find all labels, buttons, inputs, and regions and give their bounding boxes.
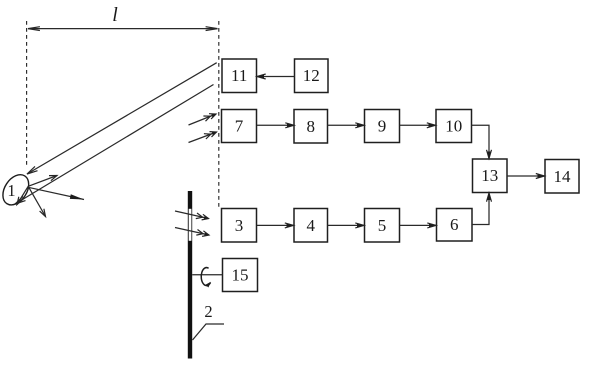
svg-text:4: 4 bbox=[307, 216, 316, 235]
svg-text:9: 9 bbox=[378, 117, 387, 136]
svg-text:15: 15 bbox=[232, 266, 249, 285]
svg-text:l: l bbox=[112, 4, 118, 26]
svg-text:10: 10 bbox=[445, 117, 462, 136]
svg-text:8: 8 bbox=[307, 117, 316, 136]
svg-text:11: 11 bbox=[231, 66, 247, 85]
svg-text:13: 13 bbox=[481, 166, 498, 185]
svg-text:14: 14 bbox=[554, 167, 572, 186]
svg-text:6: 6 bbox=[450, 215, 459, 234]
svg-text:1: 1 bbox=[7, 181, 15, 200]
svg-text:7: 7 bbox=[235, 117, 244, 136]
svg-text:5: 5 bbox=[378, 216, 387, 235]
svg-text:2: 2 bbox=[204, 302, 212, 321]
svg-text:3: 3 bbox=[235, 216, 244, 235]
svg-text:12: 12 bbox=[303, 66, 320, 85]
